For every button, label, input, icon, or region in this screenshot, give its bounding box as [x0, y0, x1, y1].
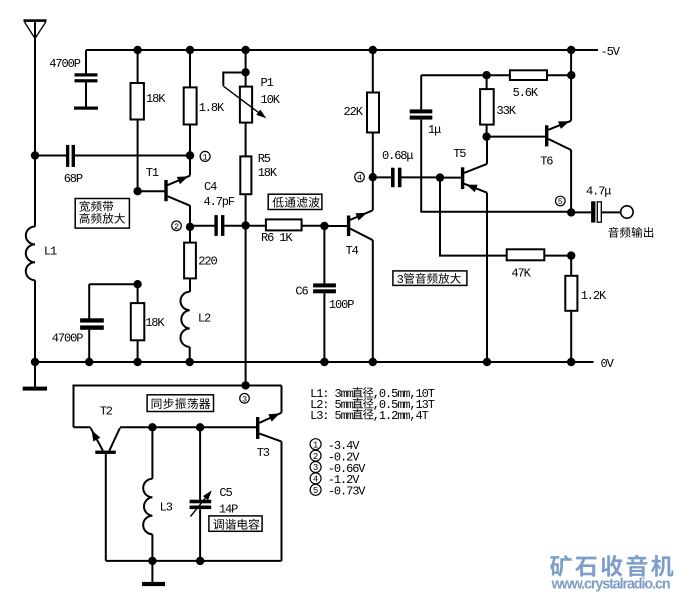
svg-text:0.68μ: 0.68μ: [382, 149, 413, 163]
resistor 33K: [480, 75, 517, 136]
transistor T4: [346, 177, 373, 362]
node junction top rail 18K: [133, 46, 141, 54]
svg-text:3: 3: [313, 463, 318, 473]
node junction mid L3: [148, 423, 156, 431]
capacitor C4 4.7pF: [190, 180, 246, 236]
capacitor 68P: [35, 145, 190, 186]
transistor T5: [440, 137, 487, 362]
voltage note 3: [310, 462, 366, 476]
svg-text:R5: R5: [258, 152, 271, 166]
svg-text:1.2K: 1.2K: [581, 289, 607, 303]
resistor 220: [184, 227, 217, 292]
svg-text:L1: L1: [44, 245, 57, 259]
svg-text:1μ: 1μ: [428, 123, 441, 137]
ground left: [23, 362, 47, 391]
node junction 0V rail T5 emitter: [483, 358, 491, 366]
svg-text:www.crystalradio.cn: www.crystalradio.cn: [551, 577, 670, 593]
node junction top rail P1: [241, 46, 249, 54]
svg-text:4700P: 4700P: [52, 332, 83, 346]
wire antenna stem: [34, 21, 36, 227]
svg-text:2: 2: [313, 452, 318, 462]
wire 0V rail: [35, 361, 594, 363]
capacitor 4700P lower: [52, 284, 138, 362]
node junction 0V rail L2: [186, 358, 194, 366]
inductor L1: [26, 227, 57, 363]
node junction 33K top: [482, 71, 490, 79]
svg-text:22K: 22K: [344, 105, 364, 119]
wire oscillator bottom: [106, 560, 282, 562]
node junction R5 C4 R6: [241, 221, 249, 385]
power label 0V: [601, 357, 615, 371]
resistor 18K upper-left: [131, 50, 167, 191]
svg-text:18K: 18K: [146, 92, 166, 106]
node junction 0V rail C6: [320, 358, 328, 366]
voltage note 4: [310, 473, 360, 487]
voltage note 1: [310, 439, 360, 453]
svg-text:33K: 33K: [497, 104, 517, 118]
wire 33K top rail: [421, 74, 571, 76]
svg-text:3: 3: [397, 273, 404, 287]
output terminal: [621, 206, 633, 218]
svg-text:47K: 47K: [511, 267, 531, 281]
wire top -5V rail: [86, 49, 598, 51]
svg-text:100P: 100P: [329, 298, 354, 312]
svg-text:T6: T6: [540, 155, 553, 169]
svg-text:T5: T5: [453, 147, 466, 161]
wire T5 base to 47K: [440, 178, 507, 256]
svg-text:C4: C4: [204, 180, 217, 194]
resistor 22K: [344, 50, 380, 177]
svg-text:R6 1K: R6 1K: [261, 231, 293, 245]
node junction 5.6K right: [567, 71, 575, 79]
resistor 1.2K: [565, 256, 607, 362]
transistor T6: [540, 50, 571, 212]
svg-text:1: 1: [203, 153, 208, 163]
node junction T5 base: [436, 173, 444, 181]
svg-text:5: 5: [313, 486, 318, 496]
svg-text:T1: T1: [146, 166, 159, 180]
node junction 18K column 4700P: [133, 280, 141, 288]
resistor 47K: [507, 249, 572, 280]
node junction mid C5: [196, 423, 204, 431]
inductor L3: [143, 427, 173, 561]
transistor T2: [74, 405, 120, 561]
node 5 output node: [556, 196, 576, 216]
svg-text:L3: 5mm: L3: 5mm: [310, 409, 354, 423]
resistor 5.6K: [510, 70, 547, 100]
svg-text:1: 1: [313, 440, 318, 450]
node 3 oscillator top: [240, 381, 250, 404]
inductor L2: [180, 292, 211, 362]
svg-text:5.6K: 5.6K: [513, 86, 539, 100]
voltage note 5: [310, 484, 366, 498]
resistor 1.8K: [184, 50, 225, 156]
node junction 47K 1.2K: [567, 251, 575, 259]
svg-text:220: 220: [198, 255, 217, 269]
power label -5V: [601, 45, 621, 59]
svg-text:4.7pF: 4.7pF: [204, 195, 235, 209]
svg-text:T2: T2: [100, 405, 113, 419]
svg-text:0V: 0V: [601, 357, 615, 371]
box label low-pass filter: [268, 194, 322, 209]
node junction 0V rail 18K: [133, 358, 141, 366]
svg-text:-0.73V: -0.73V: [328, 485, 367, 499]
svg-text:18K: 18K: [258, 166, 278, 180]
svg-text:18K: 18K: [145, 316, 165, 330]
node junction 0V rail 4700P: [85, 358, 93, 366]
voltage note 2: [310, 450, 360, 464]
transistor T1: [133, 156, 190, 227]
watermark url: [551, 577, 670, 593]
svg-text:P1: P1: [261, 76, 274, 90]
node junction top rail T6: [567, 46, 575, 54]
potentiometer P1 10K: [223, 50, 280, 156]
coil specs L1: [310, 387, 435, 401]
svg-text:10K: 10K: [261, 93, 281, 107]
node junction R6 C6 T4: [320, 222, 347, 230]
node junction 0V rail T4 emitter: [369, 358, 377, 366]
transistor T3: [256, 386, 282, 561]
svg-text:C5: C5: [219, 486, 232, 500]
wire oscillator mid: [120, 426, 256, 428]
capacitor C6 100P: [295, 226, 354, 362]
node 2 emitter T1: [172, 221, 195, 232]
node junction bottom C5: [196, 557, 204, 565]
svg-text:5: 5: [558, 197, 563, 207]
box label 3-transistor audio amplifier: [393, 271, 467, 287]
node 4 T4 collector: [355, 172, 377, 183]
svg-text:L2: L2: [198, 312, 211, 326]
capacitor 0.68u: [373, 149, 440, 187]
wire oscillator top: [74, 386, 282, 428]
coil specs L2: [310, 398, 435, 412]
svg-text:3: 3: [242, 394, 247, 404]
box label sync oscillator: [147, 395, 213, 412]
box label wideband RF amplifier: [75, 199, 129, 229]
box label tuning capacitor: [209, 516, 262, 531]
node junction bottom L3: [148, 557, 156, 565]
node junction 0V rail antenna: [31, 358, 39, 366]
capacitor 4.7u output: [571, 185, 621, 223]
svg-text:4: 4: [313, 475, 318, 485]
svg-text:4: 4: [357, 173, 362, 183]
ground bottom: [142, 561, 165, 586]
node junction 33K bottom T6 base: [482, 132, 545, 140]
svg-text:2: 2: [174, 222, 179, 232]
svg-text:4700P: 4700P: [49, 57, 80, 71]
svg-text:-5V: -5V: [601, 45, 621, 59]
antenna: [24, 19, 47, 38]
svg-text:,1.2mm,4T: ,1.2mm,4T: [373, 409, 429, 423]
svg-text:1.8K: 1.8K: [199, 101, 225, 115]
capacitor 4700P top: [49, 50, 98, 110]
resistor R5 18K: [240, 152, 278, 226]
node junction antenna 68P: [31, 151, 39, 159]
resistor R6 1K: [246, 219, 325, 245]
svg-text:C6: C6: [295, 285, 308, 299]
resistor 18K lower: [131, 284, 166, 362]
svg-text:T4: T4: [346, 244, 359, 258]
capacitor 1u: [410, 75, 572, 212]
capacitor C5 14P variable: [190, 427, 239, 561]
node junction 0V rail 1.2K: [567, 358, 575, 366]
svg-text:68P: 68P: [64, 172, 83, 186]
svg-text:T3: T3: [257, 446, 270, 460]
node 1 collector T1: [186, 151, 210, 162]
node junction top rail 22K: [369, 46, 377, 54]
svg-text:L3: L3: [160, 501, 173, 515]
label audio output: [608, 227, 653, 238]
watermark crystalradio logo: [550, 555, 673, 577]
coil specs L3: [310, 409, 429, 423]
svg-text:4.7μ: 4.7μ: [586, 185, 611, 199]
node junction top rail 1.8K: [186, 46, 194, 54]
svg-text:14P: 14P: [219, 503, 238, 517]
